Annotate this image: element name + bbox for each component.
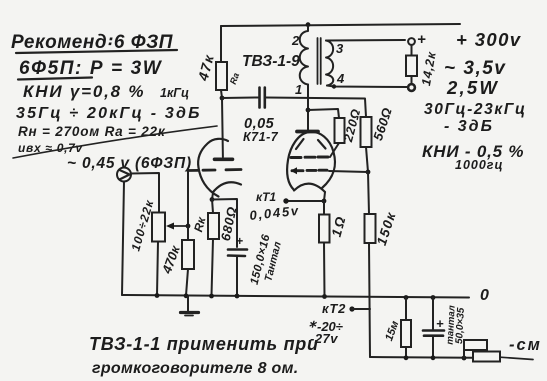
node: КТ2 test point bbox=[349, 306, 354, 311]
svg-text:КНИ γ=0,8 %: КНИ γ=0,8 % bbox=[23, 82, 145, 101]
ground bbox=[181, 297, 199, 316]
wire: triode grid lead bbox=[187, 170, 189, 226]
node: pot on rail bbox=[155, 293, 160, 298]
svg-text:-см: -см bbox=[509, 336, 542, 354]
wire: bias rail bbox=[370, 356, 473, 359]
resistor 1Ω bbox=[319, 213, 349, 242]
wire: Rк bottom lead bbox=[212, 239, 214, 296]
svg-text:ТВЗ-1-9: ТВЗ-1-9 bbox=[242, 53, 300, 70]
resistor Rк 680Ω bbox=[191, 205, 240, 242]
wire: кТ1 test lead bbox=[286, 200, 324, 202]
svg-text:кТ1: кТ1 bbox=[256, 190, 276, 204]
svg-text:50,0×35: 50,0×35 bbox=[454, 307, 467, 344]
wire: КТ2 lead bbox=[352, 308, 370, 310]
input source G bbox=[117, 168, 131, 182]
transformer primary winding bbox=[291, 26, 308, 97]
svg-text:1кГц: 1кГц bbox=[160, 86, 189, 100]
svg-text:ТВЗ-1-1 применить при: ТВЗ-1-1 применить при bbox=[89, 334, 319, 354]
wire: secondary top lead to + terminal bbox=[326, 39, 405, 42]
wire: pot bottom lead bbox=[157, 242, 158, 296]
wire: secondary bottom lead bbox=[327, 86, 407, 88]
svg-text:30Гц-23кГц: 30Гц-23кГц bbox=[424, 101, 527, 118]
capacitor C 50,0×35 тантал bbox=[423, 305, 467, 345]
svg-text:35Гц ÷ 20кГц - 3дБ: 35Гц ÷ 20кГц - 3дБ bbox=[16, 105, 202, 122]
note line 2: 6Ф5П: P = 3W bbox=[18, 58, 163, 80]
wire: bias rail out bbox=[500, 357, 533, 359]
resistor Ra 47к bbox=[194, 52, 241, 90]
resistor load 14,2 bbox=[406, 50, 439, 87]
resistor 470к bbox=[159, 240, 194, 276]
svg-text:6Ф5П: Р = 3W: 6Ф5П: Р = 3W bbox=[19, 58, 163, 79]
svg-text:+: + bbox=[236, 234, 243, 248]
wire: source to pot bbox=[131, 173, 159, 213]
svg-text:1000гц: 1000гц bbox=[455, 158, 504, 172]
svg-text:1: 1 bbox=[295, 82, 302, 97]
node: 470к on rail bbox=[184, 293, 189, 298]
node: Rк on rail bbox=[209, 294, 214, 299]
resistor bias lower bbox=[473, 352, 500, 362]
wire: 47к bottom lead bbox=[221, 90, 222, 98]
node: кТ1 test point bbox=[283, 198, 288, 203]
capacitor C 1500×16 тантал bbox=[228, 233, 284, 286]
wire: C50 bottom lead bbox=[432, 336, 434, 358]
wire: + terminal to load bbox=[411, 45, 413, 56]
wire: 15м bottom lead bbox=[405, 347, 407, 358]
wire: 470к top lead bbox=[187, 226, 189, 240]
tube V1 triode bbox=[188, 139, 241, 197]
node: plate / 220 junction bbox=[306, 108, 311, 113]
wire: primary bottom to pentode plate bbox=[307, 85, 309, 132]
svg-text:⁎: ⁎ bbox=[309, 314, 317, 330]
svg-text:3: 3 bbox=[336, 41, 344, 56]
wire: 1Ω bottom lead bbox=[323, 243, 326, 297]
wire: grid node to 150к bbox=[368, 172, 369, 214]
resistor 560Ω bbox=[361, 106, 395, 147]
svg-text:2: 2 bbox=[291, 33, 300, 48]
wire: Rк top lead bbox=[212, 199, 213, 213]
svg-text:2,5W: 2,5W bbox=[446, 77, 499, 98]
svg-text:~ 3,5v: ~ 3,5v bbox=[444, 58, 506, 79]
wire: 15м top lead bbox=[405, 298, 407, 321]
svg-text:кТ2: кТ2 bbox=[322, 301, 346, 316]
wire: cap left lead bbox=[222, 97, 258, 100]
transformer core bbox=[318, 38, 321, 84]
svg-text:4: 4 bbox=[336, 71, 345, 86]
wire: 150к bottom to bias rail bbox=[369, 243, 370, 357]
terminal: output - bbox=[408, 84, 415, 91]
wire: grid node to g1 bbox=[329, 171, 368, 172]
label КТ2 bbox=[309, 301, 346, 346]
resistor bias upper bbox=[464, 340, 487, 358]
terminal: output + bbox=[408, 31, 426, 48]
wire: junction to 220 top bbox=[308, 109, 339, 118]
wire: 1Ω top lead bbox=[323, 201, 325, 215]
potentiometer 100÷22к bbox=[128, 198, 188, 253]
node: rail to primary junction bbox=[306, 22, 311, 27]
resistor 150к bbox=[365, 209, 399, 247]
strikethrough line bbox=[13, 126, 217, 158]
node: кТ1 junction bbox=[322, 199, 327, 204]
wire: triode plate lead bbox=[221, 98, 224, 157]
note line 1: Рекоменд: 6ФЗП bbox=[11, 32, 177, 53]
wire: 47к top lead bbox=[220, 26, 222, 62]
svg-text:+ 300v: + 300v bbox=[456, 29, 522, 50]
svg-text:К71-7: К71-7 bbox=[243, 130, 279, 144]
label кТ1 bbox=[249, 190, 301, 223]
wire: load bottom lead bbox=[411, 76, 413, 84]
resistor 15м bbox=[383, 319, 411, 347]
wire: cathode to C branch bbox=[212, 199, 237, 247]
resistor 220Ω bbox=[335, 107, 364, 144]
node: wiper junction bbox=[186, 224, 191, 229]
node: C50 on bias rail bbox=[431, 355, 436, 360]
wire: C50 top lead bbox=[432, 298, 434, 330]
node: 15м on bias rail bbox=[404, 355, 409, 360]
node: cathode junction bbox=[210, 197, 215, 202]
wire: 560 bottom to grid node bbox=[366, 147, 368, 172]
wire: 470к bottom lead bbox=[186, 269, 188, 296]
node: g1 junction bbox=[366, 170, 371, 175]
node: C on rail bbox=[235, 294, 240, 299]
wire: top B+ rail bbox=[221, 24, 460, 26]
svg-text:- 3дБ: - 3дБ bbox=[444, 118, 494, 135]
note line 3: КНИ bbox=[23, 82, 189, 101]
wire: source down lead bbox=[122, 182, 124, 296]
transformer secondary winding bbox=[326, 41, 345, 87]
wire: pentode cathode lead bbox=[324, 192, 325, 201]
wire: 220 bottom to screen grid bbox=[330, 143, 339, 157]
svg-text:+: + bbox=[417, 31, 426, 48]
svg-text:громкоговорителе 8 ом.: громкоговорителе 8 ом. bbox=[92, 360, 299, 377]
node: parallel R on bias rail bbox=[462, 356, 467, 361]
wire: 0 rail bbox=[122, 295, 469, 298]
node: 15м top bbox=[404, 295, 409, 300]
svg-text:0: 0 bbox=[480, 287, 489, 304]
node: secondary bottom bbox=[332, 84, 336, 88]
tube V2 pentode bbox=[287, 132, 335, 193]
node: plate/cap junction bbox=[220, 96, 225, 101]
node: 1Ω on rail bbox=[322, 294, 327, 299]
node: C50 top bbox=[431, 295, 436, 300]
capacitor C 0,05 К71-7 bbox=[243, 88, 279, 145]
svg-text:uвх ≈ 0,7v: uвх ≈ 0,7v bbox=[18, 141, 83, 155]
wire: triode cathode lead bbox=[212, 193, 213, 199]
wire: C bottom lead bbox=[236, 256, 238, 296]
wire: cap right lead to 560 top bbox=[266, 98, 366, 118]
svg-text:+: + bbox=[436, 316, 444, 331]
